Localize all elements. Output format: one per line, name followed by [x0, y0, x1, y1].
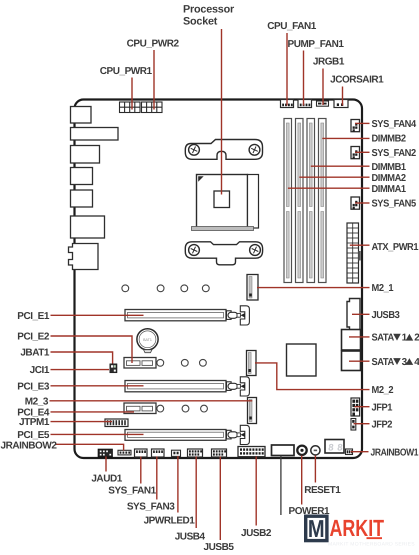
- svg-text:SATA: SATA: [372, 357, 394, 368]
- DIMM slot DIMMA1: [284, 119, 292, 283]
- CPU bracket top: [185, 140, 262, 160]
- svg-text:JTPM1: JTPM1: [19, 417, 50, 428]
- DIMM slot DIMMB1: [307, 119, 315, 283]
- wire JPWRLED1: [177, 456, 179, 513]
- wire M2_3: [50, 400, 253, 402]
- connector SYS_FAN1: [135, 449, 148, 457]
- wire CPU_PWR2: [153, 50, 155, 110]
- rear IO port 6: [71, 216, 105, 238]
- connector JRAINBOW1: [346, 449, 353, 455]
- svg-text:JPWRLED1: JPWRLED1: [144, 516, 196, 527]
- wire CPU_FAN1: [286, 33, 288, 106]
- wire JUSB4: [195, 457, 197, 529]
- wire JUSB1 dark: [280, 456, 282, 516]
- svg-text:SYS_FAN5: SYS_FAN5: [372, 199, 417, 210]
- connector CPU_PWR1: [120, 102, 141, 113]
- wire PCI_E5: [51, 433, 144, 435]
- svg-text:JUSB5: JUSB5: [204, 542, 235, 550]
- wire PCI_E4: [51, 411, 135, 413]
- svg-text:SYS_FAN3: SYS_FAN3: [127, 501, 175, 512]
- svg-text:CPU_FAN1: CPU_FAN1: [267, 21, 317, 32]
- svg-text:ATX_PWR1: ATX_PWR1: [372, 242, 419, 253]
- svg-text:DIMMB1: DIMMB1: [372, 162, 407, 173]
- svg-text:JUSB3: JUSB3: [372, 310, 401, 321]
- connector SATA12: [342, 330, 361, 351]
- svg-text:JFP1: JFP1: [372, 402, 393, 413]
- svg-text:SATA: SATA: [372, 333, 394, 344]
- rear IO audio port: [69, 244, 99, 270]
- svg-text:JUSB2: JUSB2: [241, 528, 272, 539]
- connector SYS_FAN5: [351, 197, 360, 209]
- DIMM slot DIMMA2: [296, 119, 304, 283]
- svg-text:JRAINBOW2: JRAINBOW2: [1, 440, 58, 451]
- wire SYS_FAN4: [355, 122, 370, 124]
- svg-text:PCI_E3: PCI_E3: [17, 381, 50, 392]
- M.2 connector M2_3: [248, 398, 257, 424]
- wire SYS_FAN2: [355, 151, 370, 153]
- wire JUSB5: [219, 457, 221, 541]
- connector CPU_FAN1: [281, 100, 294, 108]
- svg-text:RESET1: RESET1: [304, 485, 341, 496]
- svg-text:SYS_FAN2: SYS_FAN2: [372, 148, 417, 159]
- svg-text:CPU_PWR2: CPU_PWR2: [127, 39, 180, 50]
- wire ATX_PWR1: [350, 244, 370, 246]
- connector JUSB3: [347, 299, 360, 331]
- CPU bracket bottom: [185, 242, 262, 265]
- debug LED display: [325, 440, 344, 454]
- wire SYS_FAN1: [140, 457, 142, 484]
- PCIe slot PCI_E2: [124, 358, 156, 369]
- connector SYS_FAN3: [152, 449, 165, 457]
- battery BAT1: [137, 329, 158, 353]
- svg-text:MARKIT MOTHERBOARD SERIES: MARKIT MOTHERBOARD SERIES: [328, 541, 415, 547]
- PCIe slot PCI_E3: [125, 381, 226, 392]
- PCI_E1 latch: [227, 306, 250, 325]
- wire DIMMB2: [322, 137, 369, 139]
- chipset heatsink: [287, 344, 317, 376]
- connector JRAINBOW2: [118, 450, 131, 455]
- label SATA triangles and numbers: [393, 333, 419, 368]
- connector JFP2: [351, 419, 356, 431]
- MARKIT watermark logo: [306, 515, 416, 547]
- svg-text:M2_3: M2_3: [25, 396, 49, 407]
- connector SYS_FAN4: [351, 120, 360, 132]
- svg-text:PCI_E2: PCI_E2: [17, 332, 50, 343]
- connector JUSB5: [212, 449, 227, 457]
- wire JFP1: [355, 406, 370, 408]
- svg-text:4: 4: [414, 357, 419, 368]
- wire DIMMA2: [299, 176, 369, 178]
- wire Processor Socket: [221, 29, 223, 195]
- svg-text:DIMMA1: DIMMA1: [372, 184, 407, 195]
- wire JBAT1: [51, 352, 113, 364]
- svg-text:BAT1: BAT1: [143, 338, 152, 342]
- wire PCI_E2: [51, 336, 133, 363]
- wire SATA12: [349, 336, 370, 338]
- wire JRGB1: [322, 69, 324, 106]
- wire JFP2: [354, 423, 370, 425]
- svg-text:M2_2: M2_2: [372, 385, 394, 396]
- wire JTPM1: [51, 421, 113, 423]
- svg-text:Socket: Socket: [183, 15, 218, 27]
- rear IO port 3: [71, 146, 100, 164]
- M.2 connector M2_2: [247, 351, 257, 376]
- rear IO port 1: [71, 107, 92, 124]
- wire CPU_PWR1: [131, 78, 133, 110]
- svg-text:JRAINBOW1: JRAINBOW1: [371, 447, 419, 458]
- motherboard outline: [75, 100, 363, 459]
- connector ATX_PWR1: [347, 223, 361, 283]
- connector SATA34: [342, 351, 361, 371]
- svg-text:JUSB4: JUSB4: [175, 531, 206, 542]
- svg-text:JRGB1: JRGB1: [313, 57, 345, 68]
- svg-text:M: M: [308, 516, 325, 543]
- svg-text:PCI_E5: PCI_E5: [17, 430, 50, 441]
- connector CPU_PWR2: [142, 102, 163, 113]
- connector JUSB4: [188, 449, 203, 457]
- wire JAUD1: [105, 457, 107, 472]
- connector JTPM1: [105, 419, 128, 427]
- rear IO port 4: [71, 168, 93, 185]
- svg-text:PUMP_FAN1: PUMP_FAN1: [288, 39, 345, 50]
- svg-text:PCI_E1: PCI_E1: [17, 311, 50, 322]
- svg-text:Processor: Processor: [183, 3, 235, 15]
- wire POWER1: [301, 456, 303, 505]
- PCIe slot PCI_E4: [124, 403, 156, 414]
- svg-text:JCI1: JCI1: [30, 365, 50, 376]
- PCI_E5 latch: [227, 425, 250, 444]
- svg-text:DIMMA2: DIMMA2: [372, 173, 407, 184]
- connector JAUD1: [98, 449, 113, 457]
- svg-text:ARKIT: ARKIT: [330, 515, 385, 541]
- mounting holes row 3: [157, 405, 208, 412]
- svg-text:1: 1: [402, 333, 408, 344]
- connector SYS_FAN2: [351, 147, 360, 159]
- connector JCORSAIR1: [334, 100, 348, 108]
- PCI_E3 latch: [227, 377, 250, 396]
- M.2 connector M2_1: [247, 275, 258, 301]
- svg-text:SYS_FAN4: SYS_FAN4: [372, 119, 417, 130]
- wire JRAINBOW2: [56, 444, 124, 450]
- wire M2_1: [257, 287, 370, 289]
- svg-text:JFP2: JFP2: [372, 419, 393, 430]
- wire RESET1: [314, 456, 316, 483]
- wire SYS_FAN5: [355, 202, 370, 204]
- svg-text:SYS_FAN1: SYS_FAN1: [108, 485, 156, 496]
- svg-text:2: 2: [414, 333, 419, 344]
- wire SYS_FAN3: [156, 457, 158, 500]
- connector JPWRLED1: [172, 450, 181, 456]
- mounting holes row 2: [157, 359, 206, 366]
- wire PCI_E1: [51, 314, 144, 316]
- connector JFP1: [351, 398, 360, 416]
- PCIe slot PCI_E5: [125, 430, 226, 441]
- svg-text:JAUD1: JAUD1: [91, 473, 122, 484]
- wire SATA34: [349, 360, 370, 362]
- mounting holes row 1: [122, 285, 209, 292]
- wire JCI1: [51, 369, 110, 371]
- rear IO port 5: [71, 190, 93, 207]
- wire PUMP_FAN1: [303, 51, 305, 106]
- svg-text:3: 3: [402, 357, 408, 368]
- wire DIMMB1: [311, 165, 370, 167]
- svg-text:CPU_PWR1: CPU_PWR1: [100, 66, 153, 77]
- CPU socket: [192, 175, 259, 231]
- button POWER1: [297, 446, 306, 455]
- connector JUSB1 box: [272, 445, 295, 456]
- connector JRGB1: [317, 101, 329, 106]
- svg-text:JBAT1: JBAT1: [20, 348, 50, 359]
- svg-text:M2_1: M2_1: [372, 283, 394, 294]
- wire JUSB3: [352, 313, 370, 315]
- wire JRAINBOW1: [351, 451, 369, 453]
- DIMM slot DIMMB2: [319, 119, 327, 283]
- PCIe slot PCI_E1: [125, 310, 226, 321]
- jumper JBAT1 / JCI1: [110, 364, 117, 373]
- wire PCI_E3: [51, 385, 144, 387]
- connector PUMP_FAN1: [298, 100, 312, 108]
- rear IO port 2: [71, 128, 119, 141]
- svg-text:DIMMB2: DIMMB2: [372, 134, 407, 145]
- connector JUSB2: [238, 447, 265, 457]
- wire JCORSAIR1: [342, 87, 344, 106]
- wire M2_2: [255, 363, 370, 390]
- wire JUSB2: [255, 457, 257, 526]
- button RESET1: [311, 446, 320, 455]
- wire DIMMA1: [288, 187, 370, 189]
- svg-text:JCORSAIR1: JCORSAIR1: [330, 75, 384, 86]
